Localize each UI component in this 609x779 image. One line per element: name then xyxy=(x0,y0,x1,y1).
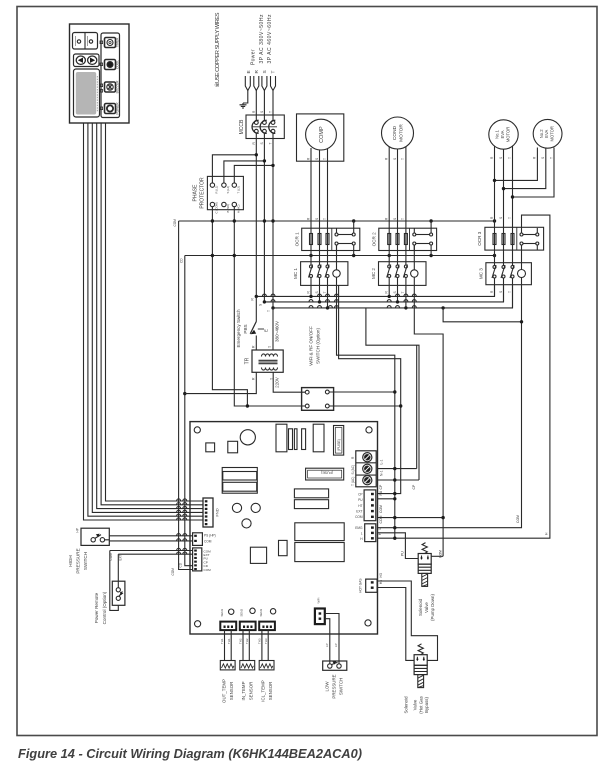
screw S xyxy=(363,464,372,473)
svg-text:T: T xyxy=(270,378,274,380)
svg-text:T: T xyxy=(401,158,405,160)
svg-text:HT: HT xyxy=(358,504,362,508)
svg-text:3P AC 380V~50Hz: 3P AC 380V~50Hz xyxy=(259,14,265,64)
svg-text:CP: CP xyxy=(412,484,416,489)
svg-text:R: R xyxy=(385,157,389,160)
control bus B xyxy=(185,255,495,257)
svg-text:COMP: COMP xyxy=(319,126,325,143)
svg-text:T: T xyxy=(269,143,273,145)
svg-text:S: S xyxy=(541,157,545,159)
svg-text:MOTOR: MOTOR xyxy=(550,126,555,142)
svg-text:POWER: POWER xyxy=(115,102,119,115)
PCB components xyxy=(206,424,344,614)
wire C(COM) down to WiFi switch xyxy=(212,207,247,406)
breaker pole S xyxy=(263,121,267,125)
svg-text:PS (HP): PS (HP) xyxy=(204,534,216,538)
svg-text:TH3: TH3 xyxy=(264,638,268,644)
svg-text:E: E xyxy=(246,70,252,73)
svg-text:MOTOR: MOTOR xyxy=(399,124,405,142)
SEN3 connector xyxy=(259,609,275,631)
svg-text:H: H xyxy=(360,537,363,541)
svg-text:Solenoid: Solenoid xyxy=(404,696,409,714)
condenser fan motor xyxy=(382,117,414,228)
svg-text:T: T xyxy=(323,218,327,220)
N-1 wire xyxy=(378,479,420,481)
MC coil feeds / aux chains xyxy=(337,215,550,556)
magnetic contactor MC 3 xyxy=(478,263,531,285)
overcurrent relay OCR 1 xyxy=(294,221,360,256)
wire bus to PCB right area xyxy=(366,308,419,480)
junction dots bus B xyxy=(211,254,214,257)
wire S to MCCB xyxy=(263,91,265,121)
controller arrow buttons xyxy=(74,54,100,67)
svg-text:(Hot Gas: (Hot Gas xyxy=(418,695,423,713)
controller cable: 6 wires to PCB FND connector xyxy=(84,123,204,520)
svg-text:EXT: EXT xyxy=(356,510,362,514)
magnetic contactor MC 2 xyxy=(371,262,426,286)
svg-text:T (AC): T (AC) xyxy=(351,477,355,486)
svg-text:T: T xyxy=(269,111,273,113)
svg-text:H: H xyxy=(545,532,549,535)
svg-text:SENSOR: SENSOR xyxy=(268,682,273,701)
PU wire xyxy=(378,498,395,500)
L-1 wire xyxy=(378,468,417,470)
svg-text:EVA: EVA xyxy=(544,130,549,138)
svg-text:MOTOR: MOTOR xyxy=(505,127,510,143)
svg-text:COND: COND xyxy=(392,125,398,140)
columns through OCR/MC gap and below MC xyxy=(311,227,513,308)
svg-text:COM: COM xyxy=(355,515,363,519)
svg-text:R: R xyxy=(306,157,310,160)
svg-text:Power: Power xyxy=(251,49,257,65)
AC power terminal block xyxy=(356,451,376,487)
svg-text:COM: COM xyxy=(379,505,383,513)
svg-text:Power Remote: Power Remote xyxy=(94,592,99,623)
svg-text:T: T xyxy=(323,158,327,160)
phase protector xyxy=(207,176,243,209)
svg-text:SENSOR: SENSOR xyxy=(229,682,234,701)
svg-text:S: S xyxy=(393,291,397,293)
wire hops over COM/CD lines xyxy=(177,499,187,520)
SEN1 connector xyxy=(220,609,236,631)
svg-text:WiFi: WiFi xyxy=(317,597,321,603)
button TIMER xyxy=(105,38,116,48)
overcurrent relay OCR 3 xyxy=(477,227,543,250)
supply labels xyxy=(246,14,276,74)
magnetic contactor MC 1 xyxy=(293,262,348,286)
wire A(NC) down to WiFi switch xyxy=(234,207,305,406)
svg-text:TH3: TH3 xyxy=(258,638,262,644)
FND connector xyxy=(203,498,220,527)
low pressure switch wires xyxy=(325,614,339,665)
svg-text:Valve: Valve xyxy=(424,602,429,613)
svg-text:R: R xyxy=(385,217,389,220)
button COOL xyxy=(105,60,116,70)
svg-text:MC 3: MC 3 xyxy=(478,268,483,279)
svg-text:TH2: TH2 xyxy=(239,638,243,644)
svg-text:T: T xyxy=(508,217,512,219)
svg-text:C (COM): C (COM) xyxy=(215,202,219,213)
T bus xyxy=(273,285,513,308)
svg-text:PU: PU xyxy=(358,498,363,502)
svg-text:H3: H3 xyxy=(379,580,383,584)
svg-text:TH1: TH1 xyxy=(227,638,231,644)
svg-text:S: S xyxy=(315,158,319,160)
svg-text:S (AC): S (AC) xyxy=(351,465,355,475)
svg-text:LP: LP xyxy=(334,643,338,647)
svg-text:T: T xyxy=(508,157,512,159)
svg-text:R: R xyxy=(533,156,537,159)
svg-text:S: S xyxy=(260,111,264,113)
svg-text:N-1: N-1 xyxy=(380,470,384,476)
solenoid COM return xyxy=(431,555,443,557)
tap T to phase protector xyxy=(234,165,273,183)
svg-text:S: S xyxy=(260,142,264,144)
svg-text:ICL_TEMP: ICL_TEMP xyxy=(260,680,265,702)
svg-text:3P AC 460V~60Hz: 3P AC 460V~60Hz xyxy=(267,14,273,64)
tap S to phase protector xyxy=(224,161,265,183)
breaker pole T xyxy=(271,121,275,125)
R bus xyxy=(256,285,512,308)
No.1 EVA motor xyxy=(489,120,518,228)
svg-text:COM: COM xyxy=(109,553,113,561)
wire E to ground xyxy=(240,91,274,121)
svg-text:R: R xyxy=(490,216,494,219)
svg-text:PROTECTOR: PROTECTOR xyxy=(200,177,206,209)
svg-text:T: T xyxy=(271,71,277,74)
HP switch wires to PCB xyxy=(109,535,192,537)
svg-text:S (L2): S (L2) xyxy=(226,186,230,194)
svg-text:COM: COM xyxy=(204,568,212,572)
svg-text:T: T xyxy=(549,157,553,159)
svg-text:PBS: PBS xyxy=(243,324,248,333)
svg-text:S: S xyxy=(259,304,263,306)
main PCB xyxy=(190,422,378,634)
external control connector xyxy=(193,548,212,572)
svg-text:R: R xyxy=(306,217,310,220)
terminal lug E xyxy=(245,76,275,91)
PCB output rows xyxy=(378,469,444,661)
svg-text:WiFi & RF ON/OFF: WiFi & RF ON/OFF xyxy=(309,326,314,366)
svg-text:HIGH: HIGH xyxy=(68,555,73,566)
svg-text:L: L xyxy=(361,532,363,536)
svg-text:TH2: TH2 xyxy=(245,638,249,644)
power remote control (option) xyxy=(110,548,193,610)
svg-text:SWITCH (Option): SWITCH (Option) xyxy=(316,328,321,364)
OUT_TEMP sensor xyxy=(220,661,235,670)
terminal lug S xyxy=(262,76,267,91)
svg-text:L: L xyxy=(378,528,382,530)
TR secondary wires xyxy=(185,372,256,393)
emergency switch PBS xyxy=(250,296,264,350)
svg-text:220V: 220V xyxy=(274,376,279,388)
hot gas wire H3 lower xyxy=(378,588,415,661)
COM line down left side xyxy=(179,221,193,570)
breaker pole R xyxy=(254,121,258,125)
svg-text:CP: CP xyxy=(379,484,383,489)
svg-text:Solenoid: Solenoid xyxy=(418,598,423,616)
No.2 EVA motor xyxy=(495,119,562,197)
svg-text:OUT_TEMP: OUT_TEMP xyxy=(222,679,227,703)
IN_TEMP sensor xyxy=(240,661,255,670)
svg-text:S: S xyxy=(315,291,319,293)
screw T xyxy=(363,476,372,485)
svg-text:T: T xyxy=(323,292,327,294)
terminal lug R xyxy=(254,76,259,91)
svg-text:R: R xyxy=(351,456,355,459)
PS(HP) connector xyxy=(193,533,216,546)
controller button pair box xyxy=(73,33,98,50)
terminal lug T xyxy=(271,76,276,91)
secondary coil xyxy=(262,368,278,371)
svg-text:LOW: LOW xyxy=(324,681,329,692)
svg-text:EMG: EMG xyxy=(355,526,363,530)
svg-text:Control (Option): Control (Option) xyxy=(102,591,107,624)
svg-text:R: R xyxy=(385,291,389,294)
svg-text:T: T xyxy=(508,291,512,293)
core xyxy=(259,360,278,363)
MCCB breaker xyxy=(239,115,284,139)
remote controller body xyxy=(70,24,130,123)
svg-text:COOL: COOL xyxy=(115,60,119,69)
button BUZZER xyxy=(105,82,116,92)
mounting holes xyxy=(194,427,200,433)
svg-text:PRESSURE: PRESSURE xyxy=(76,548,81,573)
svg-text:R: R xyxy=(490,156,494,159)
svg-text:TH1: TH1 xyxy=(220,638,224,644)
svg-text:EVA: EVA xyxy=(500,130,505,138)
svg-text:TR: TR xyxy=(245,357,251,364)
svg-text:COM: COM xyxy=(438,550,442,558)
svg-text:A (NC): A (NC) xyxy=(236,205,240,213)
MC coils xyxy=(333,270,526,278)
svg-text:MCCB: MCCB xyxy=(239,119,245,134)
svg-text:COM: COM xyxy=(173,219,177,227)
wire T-bus to OCR3 interlock xyxy=(443,308,521,322)
svg-text:E: E xyxy=(263,329,268,332)
svg-text:Valve: Valve xyxy=(413,699,418,710)
ground symbol xyxy=(240,103,247,108)
COM wire xyxy=(378,517,444,519)
svg-text:COM: COM xyxy=(516,515,520,523)
CD line down left side xyxy=(185,256,193,566)
svg-text:PHASE: PHASE xyxy=(193,184,199,202)
svg-text:MC 1: MC 1 xyxy=(293,268,298,279)
svg-text:SEN3: SEN3 xyxy=(259,609,263,617)
svg-text:EXT: EXT xyxy=(119,554,123,560)
svg-text:IN_TEMP: IN_TEMP xyxy=(241,681,246,700)
button POWER xyxy=(105,104,116,114)
solenoid valve (pump down) xyxy=(418,543,431,587)
svg-text:R: R xyxy=(251,377,255,380)
control output connector xyxy=(355,490,376,521)
svg-text:SEN2: SEN2 xyxy=(240,609,244,617)
hot gas wire H3 upper xyxy=(378,581,438,660)
svg-text:(Pump Down): (Pump Down) xyxy=(430,594,435,621)
control bus A xyxy=(179,207,495,570)
svg-text:T: T xyxy=(401,218,405,220)
svg-text:S: S xyxy=(393,158,397,160)
svg-text:CP: CP xyxy=(358,492,362,496)
transformer TR xyxy=(185,308,306,394)
svg-text:R: R xyxy=(251,298,255,301)
svg-text:S: S xyxy=(499,157,503,159)
junction dots bus A xyxy=(211,219,214,222)
svg-text:LP: LP xyxy=(325,643,329,647)
svg-text:FND: FND xyxy=(215,508,220,516)
screw R xyxy=(363,453,372,462)
svg-text:R (L1): R (L1) xyxy=(215,186,219,194)
ICL_TEMP sensor xyxy=(259,661,274,670)
svg-text:CD: CD xyxy=(179,562,183,567)
svg-text:R: R xyxy=(251,345,255,348)
svg-text:T: T xyxy=(268,346,272,348)
svg-text:R: R xyxy=(252,142,256,145)
fuse (vertical) xyxy=(334,426,344,456)
WiFi RF switch xyxy=(302,388,334,411)
svg-text:OCR 3: OCR 3 xyxy=(477,231,482,245)
svg-text:TIMER: TIMER xyxy=(115,37,119,48)
wire T to MCCB xyxy=(272,91,274,121)
S bus xyxy=(264,285,503,302)
L wire to solenoid xyxy=(378,533,419,559)
svg-text:T (L3): T (L3) xyxy=(236,186,240,193)
WiFi switch right wires xyxy=(329,392,401,406)
svg-text:COM: COM xyxy=(204,540,212,544)
primary coil xyxy=(262,354,278,357)
MC1 coil return wire xyxy=(339,285,522,493)
bus crossing hops xyxy=(262,294,416,308)
svg-text:COM: COM xyxy=(379,515,383,523)
svg-text:380~460V: 380~460V xyxy=(275,320,280,342)
svg-text:S: S xyxy=(262,70,268,73)
EMG connector xyxy=(355,524,376,542)
SEN2 connector xyxy=(240,609,256,631)
svg-text:CD: CD xyxy=(180,258,184,263)
svg-text:OCR 1: OCR 1 xyxy=(294,232,299,246)
svg-text:(FUSE): (FUSE) xyxy=(321,471,333,475)
low pressure switch xyxy=(323,661,347,670)
sensor wires xyxy=(225,630,269,660)
svg-text:S: S xyxy=(499,291,503,293)
svg-text:B (NO): B (NO) xyxy=(226,204,230,213)
svg-text:※USE COPPER SUPPLY WIRES: ※USE COPPER SUPPLY WIRES xyxy=(214,12,221,87)
svg-text:HOT GAS: HOT GAS xyxy=(359,579,363,593)
WiFi connector xyxy=(315,597,325,624)
svg-text:SEN1: SEN1 xyxy=(220,609,224,617)
svg-text:SWITCH: SWITCH xyxy=(338,678,343,695)
relay block xyxy=(222,468,257,494)
svg-text:T: T xyxy=(401,292,405,294)
svg-text:MC 2: MC 2 xyxy=(371,268,376,279)
overcurrent relay OCR 2 xyxy=(371,221,436,256)
svg-text:S: S xyxy=(315,218,319,220)
svg-text:HP: HP xyxy=(76,528,80,532)
svg-text:SWITCH: SWITCH xyxy=(83,552,88,570)
svg-text:PU: PU xyxy=(379,490,383,495)
svg-text:T: T xyxy=(267,310,271,312)
svg-text:Emergency Switch: Emergency Switch xyxy=(236,309,241,347)
svg-text:R: R xyxy=(252,110,256,113)
high pressure switch xyxy=(81,528,193,545)
svg-text:H3: H3 xyxy=(379,573,383,577)
wire R to MCCB xyxy=(255,91,257,121)
controller LCD xyxy=(74,69,100,117)
svg-text:PRESSURE: PRESSURE xyxy=(331,674,336,698)
controller right button column xyxy=(101,33,120,118)
svg-text:COM: COM xyxy=(171,568,175,576)
svg-text:OCR 2: OCR 2 xyxy=(371,232,376,246)
svg-text:SENSOR: SENSOR xyxy=(249,682,254,701)
figure caption xyxy=(18,746,362,761)
svg-text:S: S xyxy=(499,217,503,219)
bus junction dots xyxy=(255,295,445,310)
svg-text:R: R xyxy=(254,70,260,74)
bus phase labels xyxy=(251,298,272,313)
svg-text:BUZZER: BUZZER xyxy=(115,80,119,93)
compressor COMP xyxy=(297,114,344,228)
fuse (horizontal) xyxy=(306,468,344,480)
svg-text:S: S xyxy=(393,218,397,220)
solenoid valve (hot gas bypass) xyxy=(414,644,427,688)
svg-text:R: R xyxy=(306,291,310,294)
svg-text:R: R xyxy=(490,290,494,293)
HOT GAS connector xyxy=(359,579,378,593)
tap R to phase protector xyxy=(212,155,256,183)
svg-text:L-1: L-1 xyxy=(380,459,384,464)
motor lead labels xyxy=(306,156,553,294)
wires MCCB out to buses xyxy=(212,133,273,308)
svg-text:PU: PU xyxy=(401,551,405,556)
svg-text:(FUSE): (FUSE) xyxy=(337,439,341,451)
svg-text:Bypass): Bypass) xyxy=(424,697,429,713)
